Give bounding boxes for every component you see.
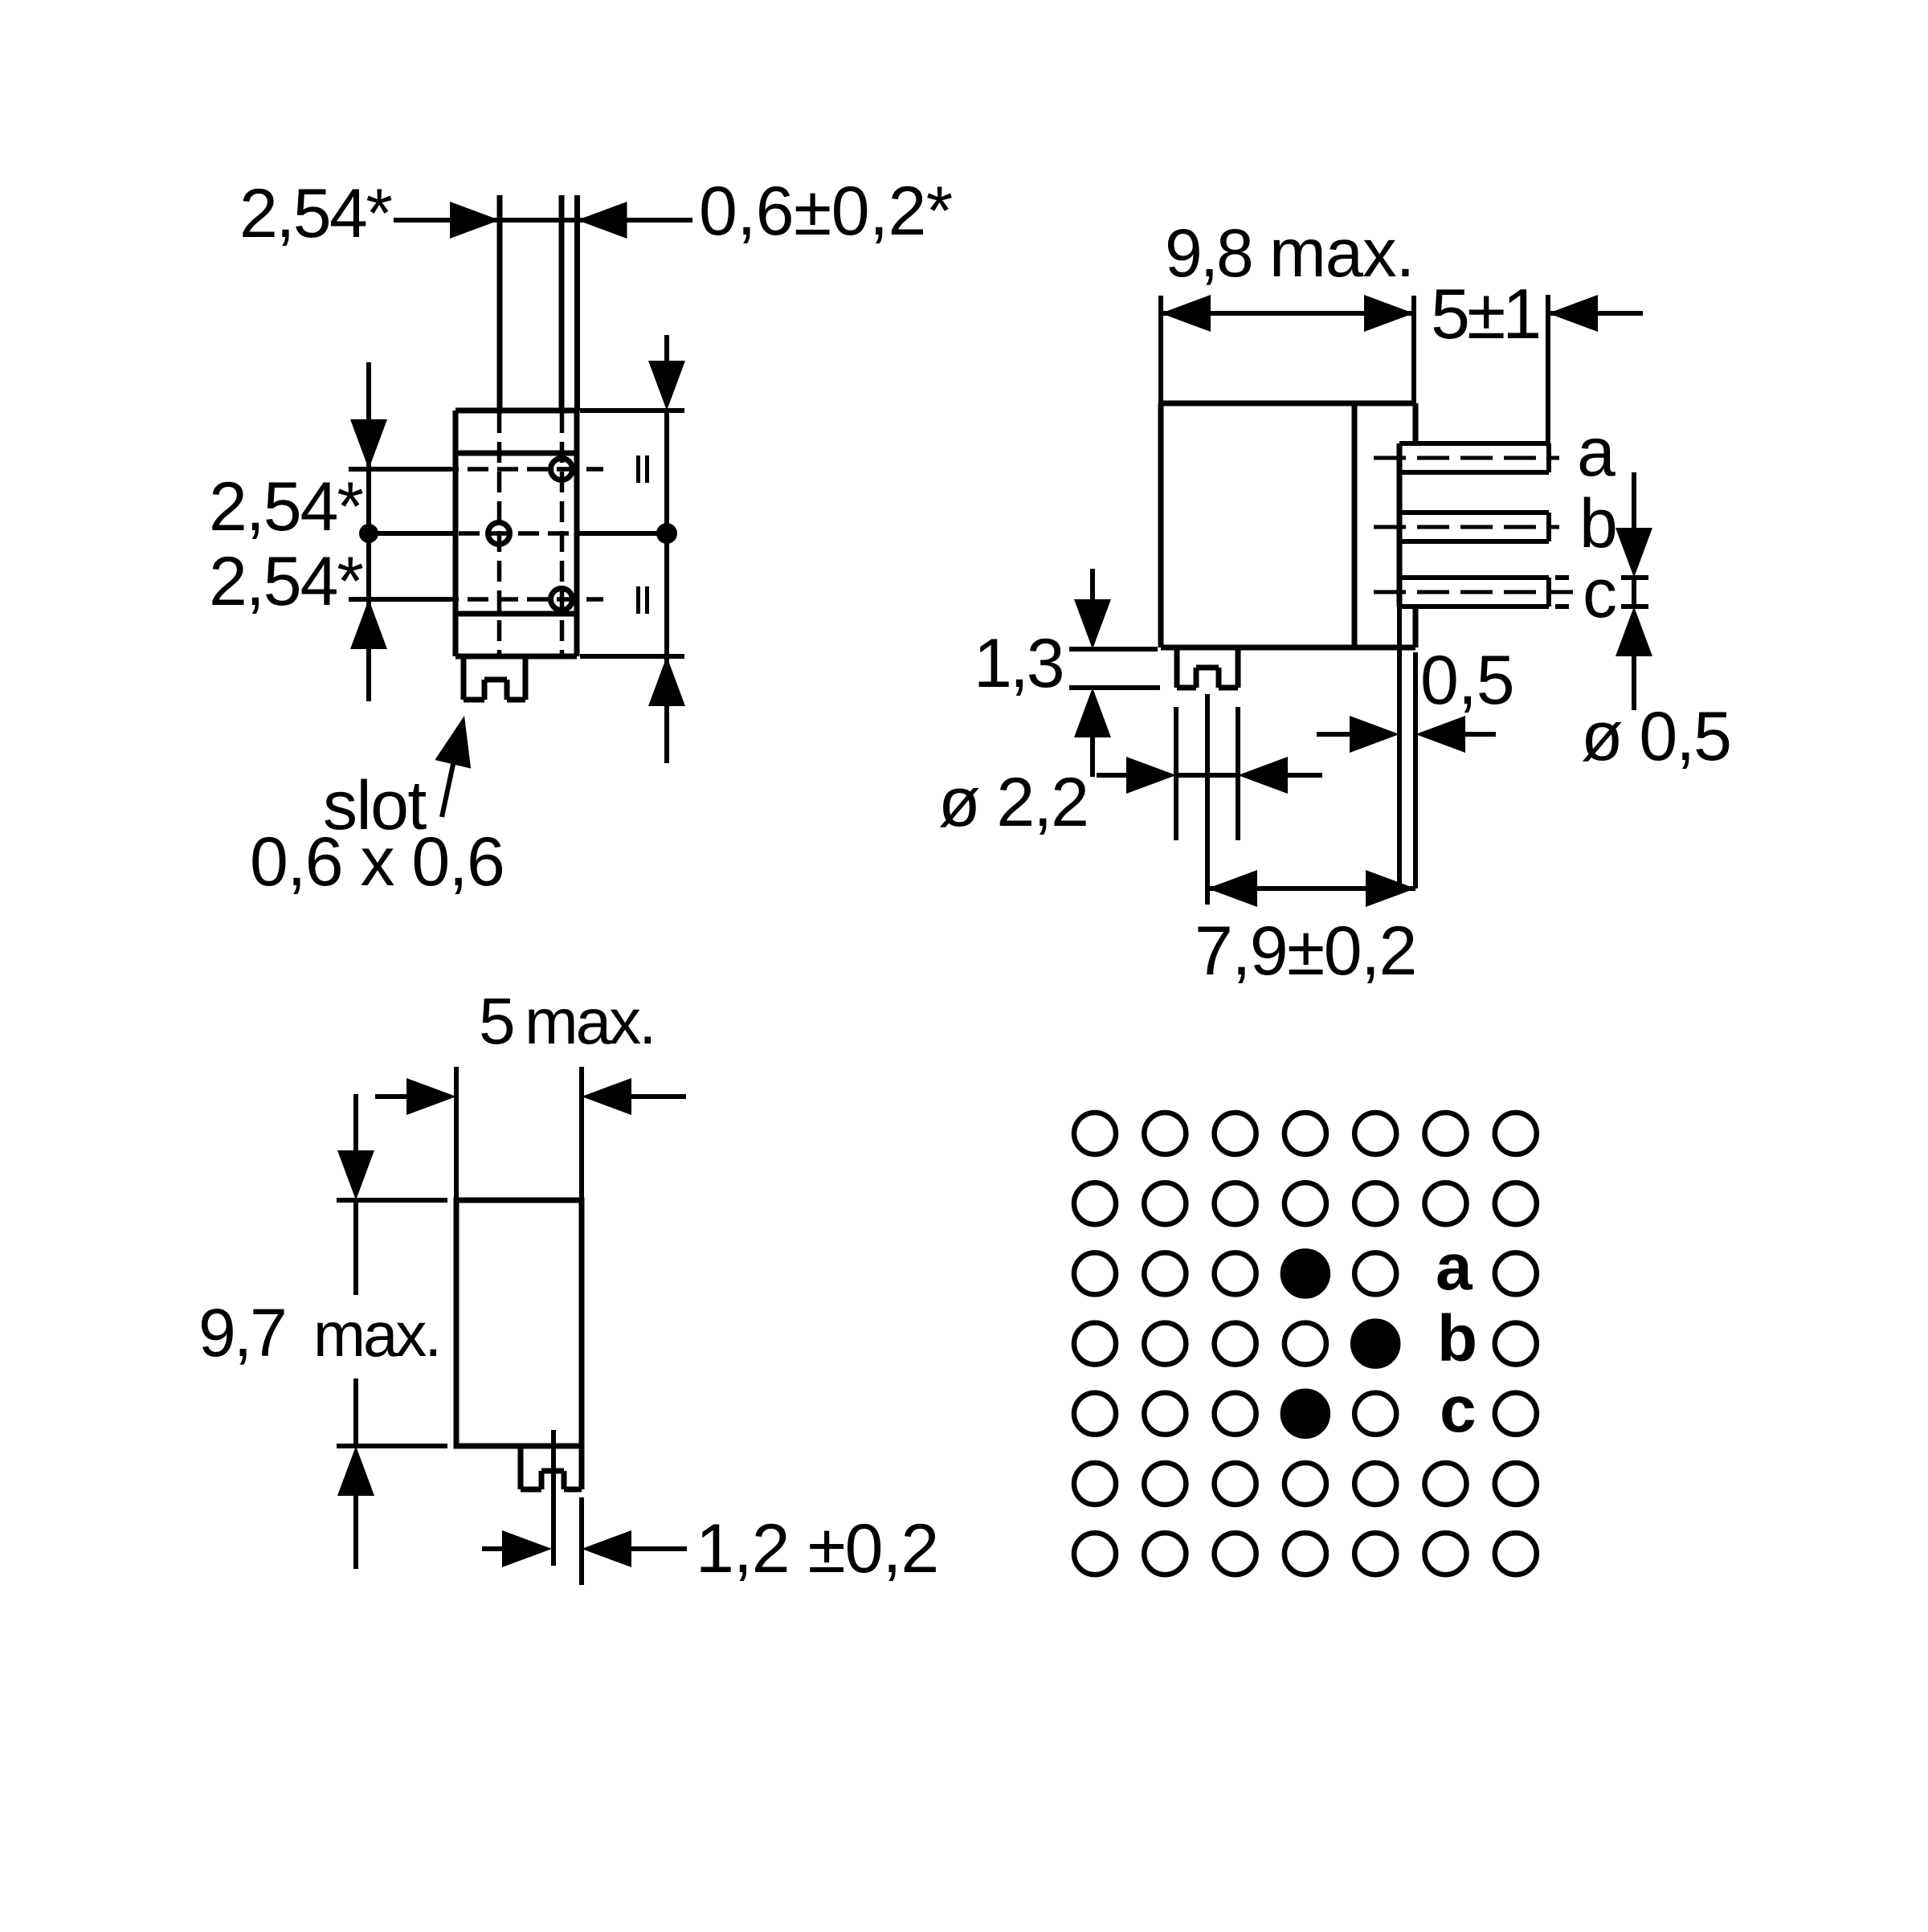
dimension 9,7 upper tail [353, 1094, 358, 1152]
svg-text:max.: max. [525, 986, 654, 1057]
extension line pin edge right [574, 195, 580, 410]
arrowhead left 5max [582, 1078, 631, 1115]
front view upper band line [455, 451, 577, 456]
dimension line 7,9 [1207, 886, 1415, 891]
extension line 1,3 top [1069, 647, 1158, 651]
arrowhead right 7,9 [1366, 870, 1415, 907]
extension line pin right [579, 1497, 584, 1585]
dimension line 2,54/0,6 top [394, 218, 692, 223]
svg-text:b: b [1579, 485, 1616, 562]
dimension 9,7 lower tail [353, 1494, 358, 1569]
svg-text:a: a [1436, 1231, 1473, 1304]
dimension line ø2,2 left [1097, 773, 1128, 778]
extension line row c left [349, 597, 451, 602]
front view dashed row line pin b [459, 531, 574, 536]
arrowhead right 9,8 [1364, 295, 1414, 332]
adjust shaft extension right [1236, 707, 1240, 840]
extension line row a left [349, 467, 451, 472]
front view dashed vertical centerline right [560, 412, 565, 655]
dimension line 5max left [375, 1094, 408, 1099]
side view slot tab [1177, 647, 1238, 688]
arrowhead down 9,7 [337, 1150, 374, 1200]
leader arrowhead slot [435, 716, 471, 769]
junction dot left dimension [359, 524, 378, 543]
dimension line 9,7 upper [353, 1200, 358, 1295]
perfboard hole grid [1074, 1113, 1537, 1575]
shaft centerline [1205, 694, 1210, 905]
svg-text:1,2 ±0,2: 1,2 ±0,2 [696, 1510, 938, 1587]
dimension line ø2,2 mid [1176, 773, 1238, 778]
svg-text:0,5: 0,5 [1420, 642, 1514, 719]
svg-text:ø 0,5: ø 0,5 [1581, 698, 1730, 775]
arrowhead left ø2,2 [1238, 757, 1288, 794]
extension line 9,7 bottom [337, 1444, 447, 1448]
dimension ø0,5 mid [1632, 578, 1636, 607]
arrowhead right ø2,2 [1126, 757, 1176, 794]
arrowhead left toward pin edge [578, 202, 627, 239]
pin b dashed centerline [1374, 525, 1559, 529]
extension line pin column left [497, 195, 503, 410]
dimension line 9,7 lower [353, 1379, 358, 1446]
front view dashed vertical centerline left [497, 412, 502, 655]
tick pin c bottom [1621, 604, 1648, 609]
svg-text:2,54*: 2,54* [209, 468, 363, 545]
extension line body edge below [1413, 652, 1418, 888]
dimension line ø2,2 right [1286, 773, 1322, 778]
junction dot right dimension [656, 523, 677, 544]
svg-text:2,54*: 2,54* [209, 543, 363, 620]
arrowhead up onto row c [350, 599, 387, 649]
dimension ø0,5 lower tail [1632, 655, 1636, 710]
dimension tail 5±1 [1548, 311, 1643, 316]
equal mark upper [639, 455, 647, 483]
right dimension tail bottom [664, 656, 669, 763]
bottom view slot tab [521, 1446, 582, 1489]
tick pin c top [1621, 575, 1648, 580]
arrowhead left 5±1 [1548, 295, 1598, 332]
dimension line 0,5 right [1464, 732, 1496, 737]
dimension line 1,2 left [482, 1546, 504, 1551]
left dimension line vertical [366, 362, 371, 469]
arrowhead up 9,7 [337, 1446, 374, 1496]
right dimension line vertical [664, 410, 669, 656]
front view dashed row line pin a [438, 467, 603, 472]
arrowhead left 7,9 [1207, 870, 1257, 907]
arrowhead down onto row a [350, 419, 387, 469]
svg-text:5: 5 [479, 985, 516, 1058]
svg-text:5±1: 5±1 [1431, 274, 1538, 353]
arrowhead down ø0,5 [1616, 528, 1652, 578]
svg-text:c: c [1583, 555, 1616, 632]
svg-text:1,3: 1,3 [974, 625, 1063, 702]
bottom view body outline [456, 1200, 582, 1446]
arrowhead left 1,2 [582, 1530, 631, 1567]
dimension line 9,8 [1161, 311, 1415, 316]
pin c end tick bottom [1555, 604, 1569, 609]
front view pin hole middle [488, 523, 510, 545]
extension line pin column below [1397, 607, 1402, 888]
front view pin hole top [551, 459, 573, 480]
pins left closure line [1397, 443, 1403, 607]
svg-text:0,6 x 0,6: 0,6 x 0,6 [250, 823, 504, 901]
svg-text:0,6±0,2*: 0,6±0,2* [699, 173, 953, 250]
leader line slot [442, 757, 455, 817]
extension line body bottom right [580, 654, 684, 659]
bottom view pin line [551, 1430, 556, 1566]
arrowhead left 9,8 [1161, 295, 1211, 332]
dimension 1,3 upper tail [1090, 569, 1095, 601]
left dimension tail bottom [366, 599, 371, 701]
adjust shaft extension left [1174, 707, 1178, 840]
pin c end tick top [1555, 575, 1569, 580]
dimension line 5max right [630, 1094, 686, 1099]
svg-text:b: b [1437, 1302, 1477, 1375]
extension line body left top [1158, 296, 1163, 403]
front view slot tab [464, 656, 525, 700]
extension line body left above [454, 1067, 459, 1200]
arrowhead right toward pin column [450, 202, 500, 239]
front view body outline [455, 410, 577, 656]
arrowhead down 1,3 [1074, 599, 1111, 649]
side view body outline [1161, 403, 1415, 647]
pin a outline [1399, 443, 1549, 472]
svg-text:c: c [1440, 1373, 1477, 1446]
pin c dashed centerline [1374, 590, 1573, 594]
right dimension tail top [664, 335, 669, 362]
row b line to right dimension [577, 531, 667, 536]
svg-text:7,9±0,2: 7,9±0,2 [1195, 913, 1416, 990]
svg-text:9,8: 9,8 [1165, 215, 1252, 291]
front view pin hole bottom [551, 589, 573, 611]
side view body right edge lower [1413, 607, 1419, 647]
svg-text:max.: max. [1269, 215, 1414, 292]
extension line body right top [1411, 296, 1416, 403]
extension line pin end [1546, 295, 1550, 443]
front view dashed row line pin c [438, 597, 603, 602]
row b line to left dimension [369, 531, 455, 536]
dimension line 1,2 right [630, 1546, 687, 1551]
arrowhead up onto body bottom right [648, 656, 685, 706]
equal mark lower [639, 586, 647, 614]
pin b outline [1399, 513, 1549, 541]
side view inner face line [1352, 403, 1358, 647]
arrowhead right 0,5 [1350, 716, 1399, 753]
svg-text:9,7: 9,7 [198, 1295, 285, 1370]
pin c outline [1399, 578, 1549, 607]
svg-text:2,54*: 2,54* [239, 175, 392, 252]
svg-text:max.: max. [313, 1299, 439, 1370]
svg-text:a: a [1577, 414, 1616, 491]
arrowhead left 0,5 [1415, 716, 1465, 753]
dimension ø0,5 upper tail [1632, 472, 1636, 529]
arrowhead down onto body top right [648, 361, 685, 410]
pin a dashed centerline [1374, 456, 1559, 460]
extension line body right above [579, 1067, 584, 1200]
dimension 1,3 lower tail [1090, 736, 1095, 777]
left dimension line mid [366, 469, 371, 599]
svg-text:ø 2,2: ø 2,2 [938, 764, 1088, 841]
extension line body top right [580, 408, 684, 413]
front view lower band line [455, 611, 577, 617]
arrowhead up ø0,5 [1616, 607, 1652, 656]
arrowhead right 5max [406, 1078, 456, 1115]
extension line pin edge left [559, 195, 565, 410]
extension line 1,3 bottom [1069, 685, 1160, 690]
dimension line 0,5 left [1317, 732, 1351, 737]
arrowhead right 1,2 [502, 1530, 552, 1567]
side view body right edge upper [1413, 403, 1419, 443]
arrowhead up 1,3 [1074, 688, 1111, 737]
extension line 9,7 top [337, 1198, 447, 1203]
